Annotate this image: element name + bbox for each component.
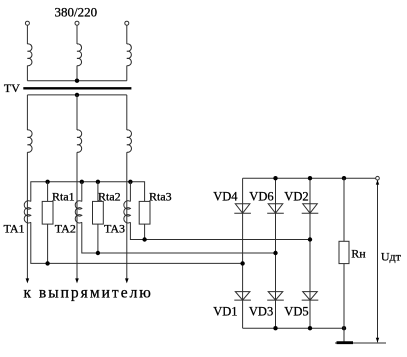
transformer TV secondary winding B [77,130,82,152]
wire bridge positive top rail [243,177,378,179]
wire phase line B down through TA2 [76,152,78,279]
wire primary winding A to star rail [26,66,28,81]
arrow phase A to rectifier [26,278,30,283]
wire phase line A down through TA1 [26,152,28,279]
ground bar [337,341,354,344]
wire Rta1 top lead [47,182,49,202]
junction bottom rail column 3 [308,326,312,330]
junction bridge node 1 [240,261,244,265]
svg-text:VD4: VD4 [213,189,238,203]
wire TA1 secondary to bridge node 1 [31,222,243,263]
wire secondary star rail [27,94,126,96]
junction TA2 secondary top [80,180,84,184]
diode VD3 [267,292,284,301]
junction bottom rail load branch [342,326,346,330]
svg-text:Rta2: Rta2 [98,189,121,203]
wire Rta1 bottom lead [47,224,49,263]
arrow phase B to rectifier [75,278,79,283]
transformer TV primary winding B [77,44,82,66]
svg-text:Uдт: Uдт [381,250,402,264]
wire primary winding B to star rail [76,66,78,81]
junction Rta2 bottom [96,251,100,255]
terminal phase C [125,21,129,25]
diode VD1 [234,292,251,301]
svg-text:VD1: VD1 [213,305,237,319]
wire phase line C down through TA3 [126,152,128,279]
wire secondary rail to winding A [26,95,28,130]
wire TA2 secondary to bridge node 2 [82,222,276,253]
svg-text:TV: TV [4,81,20,95]
wire secondary rail to winding B [76,95,78,130]
wire TA2 rail drop [81,182,83,202]
wire TA3 secondary to bridge node 3 [130,222,310,239]
junction bottom rail column 2 [273,326,277,330]
wire CT secondary common rail [31,182,145,202]
junction primary star point [75,79,79,83]
terminal phase A [25,21,29,25]
svg-text:VD2: VD2 [284,189,308,203]
junction bridge node 3 [308,237,312,241]
junction TA3 secondary top [128,180,132,184]
resistor Rn load [339,241,349,263]
svg-text:к выпрямителю: к выпрямителю [24,285,153,302]
current transformer TA2 secondary winding [75,201,82,223]
wire TA3 rail drop [129,182,131,202]
wire Udt measurement line [377,180,379,342]
svg-text:380/220: 380/220 [55,4,98,19]
wire Rta3 bottom lead [144,224,146,239]
terminal output positive [376,176,380,180]
wire terminal A to primary winding [26,25,28,44]
wire terminal C to primary winding [126,25,128,44]
wire secondary rail to winding C [126,95,128,130]
transformer TV core bar [23,87,131,89]
arrow Udt top [376,180,379,185]
diode VD5 [302,292,319,301]
resistor Rta2 [93,201,104,224]
diode VD6 [267,204,284,213]
wire Rta2 top lead [97,182,99,202]
junction Rta3 bottom [142,237,146,241]
junction bridge node 2 [273,251,277,255]
junction top rail column 3 [308,176,312,180]
terminal phase B [75,21,79,25]
arrow Udt bottom [376,338,379,343]
resistor Rta3 [139,201,150,224]
junction Rta1 top [45,180,49,184]
wire bridge column 3 [309,178,311,328]
svg-text:TA3: TA3 [104,222,125,236]
junction Rta2 top [96,180,100,184]
svg-text:TA1: TA1 [4,222,25,236]
wire bridge column 2 [275,178,277,328]
wire bridge column 1 [242,178,244,328]
svg-text:Rн: Rн [351,247,366,261]
wire primary winding C to star rail [126,66,128,81]
junction Rta1 bottom [45,261,49,265]
transformer TV primary winding A [27,44,32,66]
current transformer TA3 secondary winding [124,201,131,223]
junction top rail load branch [342,176,346,180]
svg-text:Rta3: Rta3 [149,189,172,203]
junction top rail column 2 [273,176,277,180]
transformer TV primary winding C [127,44,132,66]
svg-text:VD6: VD6 [249,189,273,203]
svg-text:VD3: VD3 [249,305,273,319]
current transformer TA1 secondary winding [24,201,31,223]
transformer TV secondary winding C [127,130,132,152]
arrow phase C to rectifier [125,278,129,283]
transformer TV secondary winding A [27,130,32,152]
wire load branch upper lead [343,178,345,241]
svg-text:Rta1: Rta1 [52,189,75,203]
wire primary star rail [27,80,126,82]
wire load branch lower lead to ground [343,264,345,343]
resistor Rta1 [42,201,53,224]
diode VD4 [234,204,251,213]
diode VD2 [302,204,319,213]
svg-text:TA2: TA2 [55,222,76,236]
wire Rta2 bottom lead [97,224,99,253]
wire terminal B to primary winding [76,25,78,44]
wire bridge negative bottom rail [243,327,344,329]
svg-text:VD5: VD5 [284,305,308,319]
junction secondary star point [75,93,79,97]
ground reference line [335,342,386,344]
